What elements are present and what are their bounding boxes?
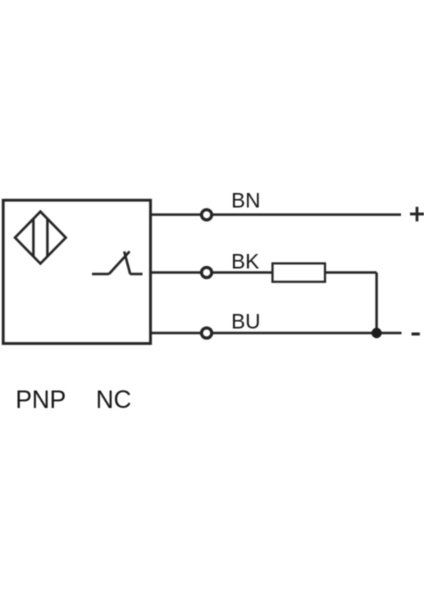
svg-text:BN: BN xyxy=(231,190,260,213)
wire BK (terminal to resistor) xyxy=(213,271,273,274)
terminal circle BK xyxy=(202,267,212,277)
wire BN (box to terminal) xyxy=(151,213,201,216)
svg-text:PNP: PNP xyxy=(16,387,67,414)
minus terminal xyxy=(412,333,420,336)
wire BK (box to terminal) xyxy=(151,271,201,274)
terminal circle BN xyxy=(202,210,212,220)
svg-text:BK: BK xyxy=(231,251,259,274)
wire vertical drop to BU line xyxy=(375,273,378,334)
terminal circle BU xyxy=(202,328,212,338)
NC switch contact xyxy=(92,251,143,274)
proximity sensor symbol (diamond) xyxy=(15,212,66,264)
svg-text:BU: BU xyxy=(231,311,260,334)
caption PNP xyxy=(16,387,67,414)
wire BU (box to terminal) xyxy=(151,332,201,335)
wire resistor to corner xyxy=(325,271,377,274)
resistor (load) xyxy=(273,263,326,281)
label BN xyxy=(231,190,260,213)
junction dot xyxy=(371,328,381,338)
label BU xyxy=(231,311,260,334)
wire BU (terminal to -) xyxy=(213,332,402,335)
label BK xyxy=(231,251,259,274)
sensor body box xyxy=(3,200,150,343)
wire BN (terminal to +) xyxy=(213,213,401,216)
plus terminal xyxy=(410,207,424,222)
svg-text:NC: NC xyxy=(96,387,132,414)
caption NC xyxy=(96,387,132,414)
